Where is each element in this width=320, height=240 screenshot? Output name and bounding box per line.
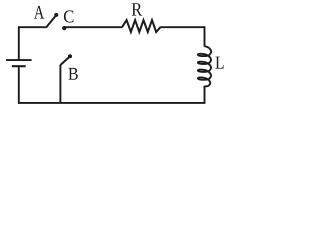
wire left vertical (battery bottom lead) xyxy=(18,67,20,104)
contact B tip dot xyxy=(68,54,72,58)
wire right vertical (top lead of inductor) xyxy=(204,26,206,46)
label B xyxy=(68,68,77,80)
switch A blade tip dot xyxy=(54,13,58,17)
contact B blade xyxy=(60,57,69,65)
inductor L coil xyxy=(198,46,211,86)
battery top plate (long) xyxy=(6,59,32,61)
label R xyxy=(132,3,142,15)
label C xyxy=(64,10,74,22)
wire top-left horizontal to switch A xyxy=(18,26,46,28)
contact B riser wire xyxy=(59,65,61,103)
switch A blade xyxy=(46,16,55,28)
wire left vertical (battery top lead) xyxy=(18,26,20,59)
wire bottom horizontal xyxy=(18,102,205,104)
wire from C to resistor xyxy=(64,26,122,28)
wire resistor to top-right corner xyxy=(160,26,205,28)
battery bottom plate (short) xyxy=(12,65,26,67)
wire right vertical (bottom lead of inductor) xyxy=(204,86,206,104)
label L xyxy=(216,57,224,69)
label A xyxy=(34,6,44,19)
contact dot C xyxy=(62,26,66,30)
resistor R zigzag xyxy=(122,20,160,32)
